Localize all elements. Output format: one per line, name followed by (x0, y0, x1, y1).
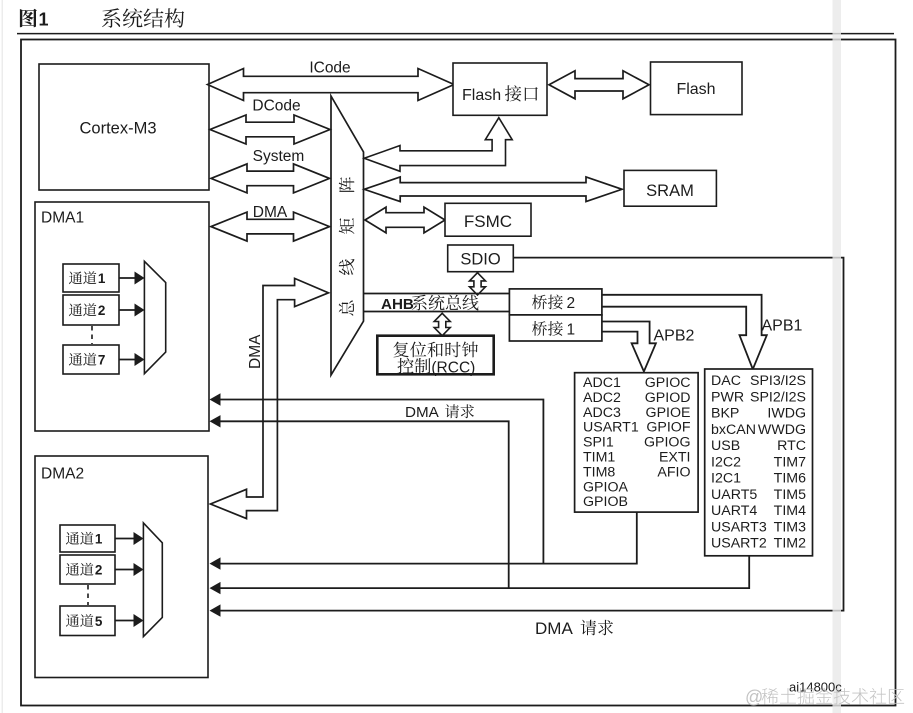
svg-text:5: 5 (95, 614, 103, 629)
arrow ICode Cortex-Flash接口 (208, 69, 455, 101)
svg-text:1: 1 (95, 532, 103, 547)
svg-text:(RCC): (RCC) (431, 359, 475, 376)
arrow busmatrix-SRAM (364, 177, 622, 202)
svg-text:TIM8: TIM8 (583, 464, 615, 480)
DMA1 arrow 通道1-mux (119, 277, 136, 279)
pipe APB1 桥接2-APB1box (602, 295, 767, 369)
svg-text:IWDG: IWDG (767, 406, 806, 422)
svg-text:1: 1 (98, 271, 106, 286)
svg-text:TIM2: TIM2 (774, 536, 806, 552)
block 复位和时钟控制(RCC) (377, 336, 493, 375)
svg-text:APB2: APB2 (654, 328, 695, 345)
block Flash (651, 62, 743, 115)
DMA1 channel box 通道7 (63, 345, 119, 374)
block 桥接2 (509, 289, 602, 315)
svg-text:GPIOD: GPIOD (645, 390, 691, 406)
svg-text:DAC: DAC (711, 373, 741, 389)
DMA1 arrow 通道7-mux (119, 359, 136, 361)
svg-text:DMA: DMA (405, 404, 440, 421)
block SRAM (624, 170, 716, 206)
svg-text:UART5: UART5 (711, 487, 757, 503)
DMA1 arrow 通道2-mux (119, 309, 136, 311)
svg-text:2: 2 (98, 303, 106, 318)
bent hollow arrow DMA busmatrix-DMA2 (211, 278, 329, 518)
title 系统结构 (102, 8, 184, 27)
title 图1 (20, 9, 37, 28)
arrow System Cortex-busmatrix (211, 164, 330, 193)
svg-text:DMA: DMA (247, 334, 264, 369)
svg-text:1: 1 (39, 10, 49, 30)
svg-text:DMA2: DMA2 (41, 466, 84, 483)
svg-text:TIM4: TIM4 (774, 503, 806, 519)
svg-text:ADC2: ADC2 (583, 390, 621, 406)
svg-text:GPIOG: GPIOG (644, 435, 691, 451)
arrow SDIO-AHB (470, 273, 486, 295)
svg-text:FSMC: FSMC (464, 212, 512, 231)
wire APB1-DMA2 (DMA request) (219, 556, 749, 588)
block Cortex-M3 (39, 64, 209, 190)
svg-text:WWDG: WWDG (758, 422, 806, 438)
block APB2 peripherals (575, 373, 699, 512)
block FSMC (445, 203, 531, 236)
svg-text:2: 2 (95, 563, 103, 578)
block DMA2 (35, 456, 208, 678)
svg-text:DMA: DMA (535, 619, 573, 638)
svg-text:SDIO: SDIO (460, 251, 501, 269)
svg-text:TIM5: TIM5 (774, 487, 806, 503)
block APB1 peripherals (705, 369, 813, 556)
DMA2 channel box 通道5 (60, 606, 115, 636)
svg-text:SPI2/I2S: SPI2/I2S (750, 389, 806, 405)
svg-text:System: System (253, 148, 305, 165)
DMA1 dashed link 通道2-通道7 (91, 326, 93, 344)
svg-text:I2C1: I2C1 (711, 471, 741, 487)
title underline (17, 33, 894, 35)
DMA2 arrow 通道2-mux (115, 569, 135, 571)
svg-text:1: 1 (567, 322, 576, 339)
svg-text:Flash: Flash (676, 81, 715, 98)
svg-text:7: 7 (98, 353, 106, 368)
svg-text:GPIOF: GPIOF (646, 420, 690, 436)
arrow DMA DMA1-busmatrix (211, 212, 330, 241)
DMA1 channel box 通道1 (63, 264, 119, 292)
svg-text:ADC3: ADC3 (583, 405, 621, 421)
block 桥接1 (509, 315, 602, 341)
svg-text:GPIOC: GPIOC (645, 375, 691, 391)
faint page-edge line left (2, 0, 4, 713)
DMA2 mux (143, 523, 162, 637)
svg-text:USART1: USART1 (583, 420, 639, 436)
DMA2 arrow 通道5-mux (115, 620, 135, 622)
svg-text:APB1: APB1 (762, 318, 803, 335)
svg-text:PWR: PWR (711, 389, 744, 405)
svg-text:EXTI: EXTI (659, 450, 691, 466)
bus matrix label 总线矩阵 (vertical) (339, 177, 355, 316)
svg-text:2: 2 (567, 295, 576, 312)
svg-text:UART4: UART4 (711, 503, 757, 519)
wire SDIO-DMA2 (DMA request) (219, 258, 844, 611)
bus matrix 总线矩阵 shape (331, 96, 364, 375)
arrow Flash接口-Flash (549, 71, 649, 99)
block SDIO (448, 245, 514, 272)
faint page-edge band right (overlay) (833, 0, 842, 713)
svg-text:USB: USB (711, 438, 740, 454)
DMA2 channel box 通道1 (60, 525, 115, 552)
svg-text:SPI3/I2S: SPI3/I2S (750, 373, 806, 389)
svg-text:@: @ (745, 687, 763, 707)
bent arrow busmatrix-Flash接口 (364, 118, 512, 172)
svg-text:USART3: USART3 (711, 519, 767, 535)
svg-text:GPIOB: GPIOB (583, 494, 628, 510)
svg-text:BKP: BKP (711, 406, 739, 422)
label DMA (vertical) (247, 334, 264, 369)
svg-text:Flash: Flash (462, 87, 501, 104)
svg-text:bxCAN: bxCAN (711, 422, 756, 438)
arrow DCode Cortex-busmatrix (210, 115, 330, 144)
svg-text:TIM6: TIM6 (774, 471, 806, 487)
svg-text:AHB: AHB (381, 296, 414, 313)
svg-text:TIM7: TIM7 (774, 454, 806, 470)
svg-text:Cortex-M3: Cortex-M3 (79, 120, 156, 138)
wire APB2-DMA2 (DMA request) (219, 512, 637, 564)
svg-text:ADC1: ADC1 (583, 375, 621, 391)
svg-text:USART2: USART2 (711, 536, 767, 552)
svg-text:SPI1: SPI1 (583, 435, 614, 451)
DMA1 channel box 通道2 (63, 295, 119, 325)
svg-text:I2C2: I2C2 (711, 454, 741, 470)
wire branch APB1-DMA1 (DMA request) (219, 421, 509, 588)
block Flash接口 (453, 63, 547, 115)
DMA2 arrow 通道1-mux (115, 538, 135, 540)
arrow busmatrix-FSMC (365, 207, 445, 233)
arrow AHB-RCC (434, 313, 450, 335)
svg-text:RTC: RTC (777, 438, 806, 454)
svg-text:AFIO: AFIO (657, 464, 690, 480)
svg-text:TIM1: TIM1 (583, 450, 615, 466)
block DMA1 (35, 202, 209, 431)
pipe APB2 桥接1-APB2box (602, 322, 656, 372)
svg-text:GPIOA: GPIOA (583, 479, 628, 495)
svg-text:DCode: DCode (252, 98, 300, 115)
svg-text:DMA1: DMA1 (41, 210, 84, 227)
svg-text:TIM3: TIM3 (774, 519, 806, 535)
DMA2 dashed link 通道2-通道5 (87, 585, 89, 605)
svg-text:SRAM: SRAM (646, 182, 694, 200)
AHB bus band (364, 293, 510, 295)
DMA1 mux (144, 261, 165, 373)
svg-text:ICode: ICode (309, 60, 350, 77)
wire branch APB2-DMA1 (DMA request) (219, 400, 543, 564)
svg-text:GPIOE: GPIOE (646, 405, 691, 421)
DMA2 channel box 通道2 (60, 555, 115, 584)
